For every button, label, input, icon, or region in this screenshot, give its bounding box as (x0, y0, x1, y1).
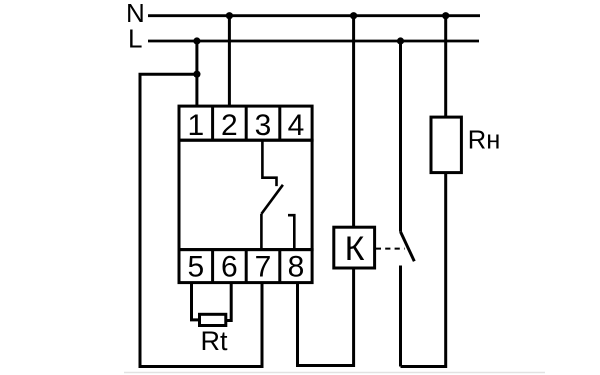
svg-text:8: 8 (288, 251, 305, 284)
wire: L to contact switch (399, 41, 402, 232)
terminal divider 6|7 (245, 250, 248, 283)
device body (179, 140, 312, 249)
wire: terminal 5 to Rt (192, 283, 200, 320)
wire: contact to bottom (399, 266, 402, 367)
internal contact: fixed contact to terminal 8 (288, 215, 294, 250)
svg-text:Rt: Rt (201, 326, 228, 356)
wire: N to relay coil K (352, 16, 355, 228)
svg-text:1: 1 (187, 109, 204, 142)
svg-text:К: К (345, 230, 365, 268)
terminal divider 7|8 (278, 250, 281, 283)
junction dot on L at terminal-1 branch (193, 37, 200, 44)
bottom terminal strip (179, 250, 312, 283)
junction dot on N at terminal-2 branch (226, 12, 233, 19)
svg-text:2: 2 (221, 109, 238, 142)
svg-text:L: L (128, 23, 142, 53)
wire: terminal 6 to Rt (225, 283, 231, 321)
wire: N to terminal 2 (228, 16, 231, 107)
wire: N to resistor Rn (444, 16, 447, 118)
svg-text:6: 6 (221, 251, 238, 284)
terminal divider 5|6 (211, 250, 214, 283)
junction dot at left-loop branch (193, 71, 200, 78)
svg-text:3: 3 (255, 109, 272, 142)
junction dot on L at switch branch (397, 37, 404, 44)
relay contact blade (401, 232, 415, 261)
wire: N rail (148, 14, 480, 17)
svg-text:4: 4 (288, 109, 305, 142)
wire: bottom link contact to Rn (401, 173, 446, 367)
wire: L rail (148, 40, 479, 43)
internal contact: moving blade (261, 185, 283, 214)
relay coil K box (334, 227, 375, 268)
junction dot on N at Rn branch (442, 12, 449, 19)
terminal divider 2|3 (245, 106, 248, 140)
svg-text:Rн: Rн (468, 127, 501, 155)
svg-text:7: 7 (255, 251, 272, 284)
resistor Rn box (431, 117, 461, 173)
thermistor Rt box (200, 314, 226, 325)
internal contact: lead to terminal 7 (260, 214, 263, 250)
terminal divider 3|4 (278, 106, 281, 140)
internal contact: lead from terminal 3 (262, 140, 276, 186)
wire: left loop (branch to terminal 7) (140, 74, 262, 366)
faint page edge line (124, 372, 545, 374)
top terminal strip (179, 106, 312, 140)
wire: L to terminal 1 (195, 41, 198, 107)
wire: K coil bottom to terminal 8 (298, 268, 354, 366)
junction dot on N at K branch (350, 12, 357, 19)
dashed mechanical link (376, 248, 405, 250)
svg-text:5: 5 (187, 251, 204, 284)
terminal divider 1|2 (211, 106, 214, 140)
